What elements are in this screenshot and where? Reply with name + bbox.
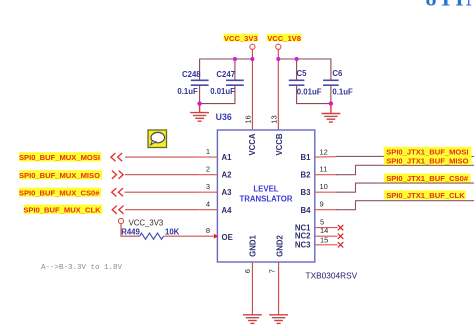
svg-text:B2: B2 bbox=[301, 171, 312, 180]
wire OE bbox=[164, 235, 214, 237]
svg-text:3: 3 bbox=[206, 182, 210, 191]
no-connect X NC1 bbox=[338, 225, 344, 230]
svg-text:8TIN: 8TIN bbox=[426, 0, 474, 11]
net label SPI0_BUF_MUX_CLK bbox=[23, 205, 102, 215]
svg-text:5: 5 bbox=[320, 217, 324, 226]
net VCC_3V3 power label bbox=[223, 34, 258, 43]
port chevron MOSI (input, <<) bbox=[111, 153, 122, 161]
label LEVEL TRANSLATOR bbox=[240, 184, 293, 203]
junction dot C6 gnd bbox=[329, 101, 333, 105]
pin stub A3 bbox=[195, 191, 217, 193]
svg-text:SPI0_BUF_MUX_CLK: SPI0_BUF_MUX_CLK bbox=[23, 206, 101, 215]
wire VCC_3V3 top bus bbox=[200, 59, 253, 80]
svg-text:4: 4 bbox=[206, 200, 210, 209]
wire A4 bbox=[125, 209, 196, 211]
svg-text:A-->B-3.3V to 1.8V: A-->B-3.3V to 1.8V bbox=[41, 264, 123, 272]
wire NC2 stub bbox=[315, 235, 338, 237]
junction dot C5 top bbox=[295, 57, 299, 61]
svg-text:VCC_3V3: VCC_3V3 bbox=[224, 34, 258, 43]
svg-text:NC2: NC2 bbox=[295, 232, 311, 241]
svg-text:15: 15 bbox=[320, 235, 328, 244]
svg-text:GND1: GND1 bbox=[249, 235, 258, 257]
svg-text:U36: U36 bbox=[216, 112, 232, 122]
svg-text:10: 10 bbox=[320, 182, 328, 191]
net label SPI0_BUF_MUX_MOSI bbox=[19, 152, 101, 162]
ground (GND2) bbox=[269, 315, 288, 324]
svg-text:C247: C247 bbox=[216, 70, 235, 79]
svg-text:14: 14 bbox=[320, 226, 328, 235]
wire C6 bottom bbox=[330, 85, 332, 103]
svg-text:7: 7 bbox=[268, 269, 277, 273]
svg-text:9: 9 bbox=[320, 200, 324, 209]
svg-text:VCCB: VCCB bbox=[275, 133, 284, 155]
svg-text:VCCA: VCCA bbox=[248, 133, 257, 155]
capacitor C248 bbox=[177, 70, 208, 96]
svg-text:8: 8 bbox=[206, 226, 210, 235]
svg-text:1: 1 bbox=[206, 147, 210, 156]
pin stub A1 bbox=[195, 156, 217, 158]
svg-text:LEVEL: LEVEL bbox=[253, 184, 278, 193]
port chevron MISO (output, >>) bbox=[112, 171, 123, 179]
svg-text:SPI0_JTX1_BUF_MISO: SPI0_JTX1_BUF_MISO bbox=[386, 157, 468, 166]
wire NC3 stub bbox=[315, 244, 338, 246]
svg-text:6: 6 bbox=[243, 269, 252, 273]
svg-text:B3: B3 bbox=[301, 188, 312, 197]
junction dot VCC_1V8 bbox=[276, 57, 280, 61]
svg-text:R449: R449 bbox=[121, 227, 140, 236]
wire B4 to SPI0_JTX1_BUF_CLK bbox=[315, 201, 474, 210]
no-connect X NC2 bbox=[338, 234, 344, 239]
svg-text:B1: B1 bbox=[301, 153, 312, 162]
svg-text:SPI0_JTX1_BUF_CS0#: SPI0_JTX1_BUF_CS0# bbox=[386, 174, 469, 183]
wire VCC_3V3 vertical (circle to VCCA pin 16) bbox=[251, 49, 253, 130]
junction dot C248 gnd bbox=[197, 101, 201, 105]
wire C247 bottom / ground bus bbox=[200, 85, 235, 103]
svg-text:TXB0304RSV: TXB0304RSV bbox=[306, 271, 358, 281]
svg-text:2: 2 bbox=[206, 165, 210, 174]
pin stub A4 bbox=[195, 209, 217, 211]
svg-text:12: 12 bbox=[320, 148, 328, 157]
wire B3 to SPI0_JTX1_BUF_CS0# bbox=[315, 183, 474, 192]
svg-text:GND2: GND2 bbox=[276, 235, 285, 257]
svg-text:13: 13 bbox=[269, 115, 278, 123]
wire A3 bbox=[125, 191, 197, 193]
ground (under C6) bbox=[322, 104, 341, 123]
svg-text:SPI0_BUF_MUX_MISO: SPI0_BUF_MUX_MISO bbox=[19, 171, 100, 180]
VCC_3V3 power port circle bbox=[250, 44, 255, 49]
net label SPI0_JTX1_BUF_CLK bbox=[384, 190, 466, 200]
svg-text:SPI0_BUF_MUX_CS0#: SPI0_BUF_MUX_CS0# bbox=[19, 188, 100, 197]
svg-text:A1: A1 bbox=[222, 153, 233, 162]
svg-text:VCC_3V3: VCC_3V3 bbox=[129, 219, 164, 228]
svg-text:C248: C248 bbox=[182, 70, 201, 79]
wire VCC_1V8 top bus bbox=[278, 59, 331, 80]
no-connect X NC3 bbox=[338, 242, 344, 247]
capacitor C5 bbox=[289, 69, 322, 97]
capacitor C247 bbox=[210, 70, 244, 96]
svg-text:0.1uF: 0.1uF bbox=[332, 88, 353, 97]
wire GND2 bbox=[278, 262, 280, 315]
pin stub A2 bbox=[195, 174, 217, 176]
net label SPI0_JTX1_BUF_MOSI bbox=[384, 147, 472, 157]
svg-text:C5: C5 bbox=[297, 69, 308, 78]
wire VCC to R449 bbox=[121, 224, 140, 237]
svg-text:SPI0_JTX1_BUF_CLK: SPI0_JTX1_BUF_CLK bbox=[386, 191, 465, 200]
VCC_3V3 power port circle (at R449) bbox=[118, 218, 123, 223]
resistor R449 10K bbox=[121, 227, 179, 239]
svg-text:VCC_1V8: VCC_1V8 bbox=[267, 34, 301, 43]
svg-text:C6: C6 bbox=[332, 69, 343, 78]
wire B2 to SPI0_JTX1_BUF_MISO bbox=[315, 165, 474, 174]
ground (under C248) bbox=[190, 104, 209, 122]
net label SPI0_BUF_MUX_CS0# bbox=[19, 188, 101, 198]
wire C5 top stub bbox=[296, 59, 298, 80]
annotation speech-bubble symbol bbox=[148, 130, 167, 148]
wire NC1 stub bbox=[315, 227, 338, 229]
wire A2 bbox=[125, 174, 196, 176]
svg-text:B4: B4 bbox=[301, 206, 312, 215]
wire C5 bottom / ground bus bbox=[297, 85, 331, 103]
svg-text:SPI0_JTX1_BUF_MOSI: SPI0_JTX1_BUF_MOSI bbox=[386, 148, 468, 157]
wire C248 bottom to ground bus bbox=[199, 85, 201, 103]
VCC_1V8 power port circle bbox=[276, 44, 281, 49]
svg-text:0.01uF: 0.01uF bbox=[297, 88, 322, 97]
wire VCC_1V8 vertical (circle to VCCB pin 13) bbox=[277, 49, 279, 130]
net VCC_1V8 power label bbox=[267, 34, 302, 43]
pin arrow OE (input arrowhead) bbox=[214, 234, 219, 239]
net label SPI0_BUF_MUX_MISO bbox=[19, 170, 102, 180]
wire GND1 bbox=[251, 262, 253, 315]
capacitor C6 bbox=[323, 69, 353, 97]
junction dot VCC_3V3 bbox=[250, 57, 254, 61]
net label SPI0_JTX1_BUF_MISO bbox=[384, 156, 472, 166]
wire A1 bbox=[125, 156, 196, 158]
svg-text:0.1uF: 0.1uF bbox=[177, 87, 198, 96]
junction dot C247 top bbox=[233, 57, 237, 61]
svg-text:0.01uF: 0.01uF bbox=[210, 87, 235, 96]
svg-text:A4: A4 bbox=[222, 206, 233, 215]
svg-text:NC3: NC3 bbox=[295, 241, 311, 250]
op-amp U36 body: level translator IC outline bbox=[217, 130, 314, 262]
port chevron CLK (input, <<) bbox=[112, 206, 123, 214]
svg-text:16: 16 bbox=[243, 115, 252, 123]
wire C247 top stub bbox=[234, 59, 236, 80]
net label SPI0_JTX1_BUF_CS0# bbox=[384, 174, 471, 184]
svg-text:A3: A3 bbox=[222, 188, 233, 197]
svg-text:SPI0_BUF_MUX_MOSI: SPI0_BUF_MUX_MOSI bbox=[19, 153, 100, 162]
svg-text:A2: A2 bbox=[222, 171, 233, 180]
svg-text:10K: 10K bbox=[165, 227, 180, 236]
svg-text:OE: OE bbox=[222, 233, 233, 242]
ground (GND1) bbox=[243, 315, 262, 324]
svg-text:11: 11 bbox=[320, 165, 328, 174]
port chevron CS0# (input, <<) bbox=[112, 188, 123, 196]
svg-text:TRANSLATOR: TRANSLATOR bbox=[240, 195, 293, 204]
wire B1 to SPI0_JTX1_BUF_MOSI bbox=[315, 155, 474, 158]
